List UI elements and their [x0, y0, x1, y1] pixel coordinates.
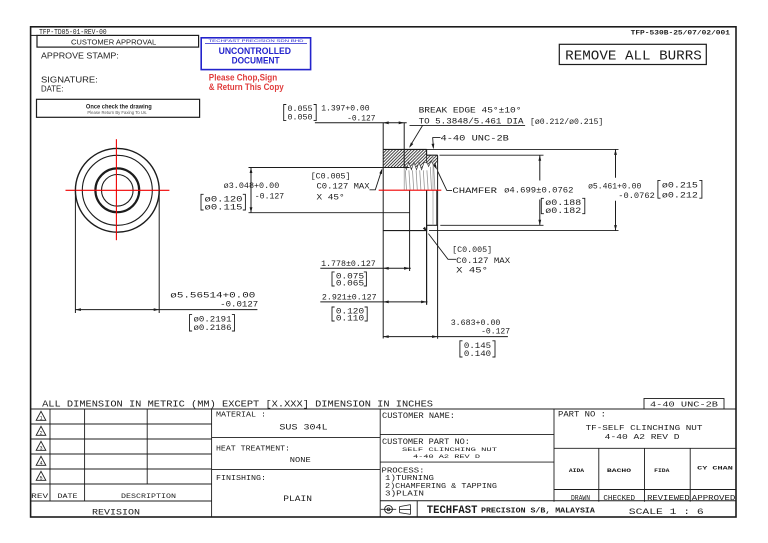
svg-text:0.065: 0.065 — [336, 280, 364, 289]
svg-text:SUS 304L: SUS 304L — [279, 424, 327, 433]
svg-text:CHAMFER: CHAMFER — [452, 187, 497, 196]
svg-text:0.050: 0.050 — [288, 114, 313, 123]
svg-text:PART NO :: PART NO : — [558, 410, 606, 419]
svg-text:DOCUMENT: DOCUMENT — [232, 56, 280, 66]
svg-text:ø0.2191: ø0.2191 — [194, 315, 232, 324]
svg-text:MATERIAL :: MATERIAL : — [216, 412, 266, 420]
svg-text:ALL DIMENSION IN METRIC (MM) E: ALL DIMENSION IN METRIC (MM) EXCEPT [X.X… — [42, 398, 433, 409]
svg-text:2)CHAMFERING & TAPPING: 2)CHAMFERING & TAPPING — [385, 483, 497, 491]
svg-text:X 45°: X 45° — [317, 193, 345, 202]
svg-text:TFP-530B-25/07/02/001: TFP-530B-25/07/02/001 — [631, 30, 730, 38]
svg-text:TECHFAST PRECISION SDN BHD: TECHFAST PRECISION SDN BHD — [209, 39, 305, 43]
svg-text:TF-SELF CLINCHING NUT: TF-SELF CLINCHING NUT — [586, 425, 703, 433]
svg-text:[C0.005]: [C0.005] — [311, 172, 351, 182]
svg-text:[ø0.212/ø0.215]: [ø0.212/ø0.215] — [530, 117, 603, 127]
svg-text:[C0.005]: [C0.005] — [452, 245, 492, 255]
svg-text:ø4.699±0.0762: ø4.699±0.0762 — [504, 187, 573, 196]
svg-text:2: 2 — [39, 431, 42, 437]
svg-text:HEAT TREATMENT:: HEAT TREATMENT: — [216, 445, 290, 453]
svg-text:PRECISION S/B, MALAYSIA: PRECISION S/B, MALAYSIA — [481, 507, 596, 515]
svg-text:2.921±0.127: 2.921±0.127 — [322, 294, 377, 303]
svg-text:0.110: 0.110 — [336, 315, 364, 324]
svg-text:-0.127: -0.127 — [481, 328, 510, 337]
svg-text:ø5.56514+0.00: ø5.56514+0.00 — [170, 292, 255, 301]
svg-text:Please Chop,Sign: Please Chop,Sign — [209, 72, 278, 82]
svg-text:DATE: DATE — [58, 493, 78, 500]
svg-text:CY CHAN: CY CHAN — [697, 465, 733, 472]
svg-text:BACHO: BACHO — [607, 467, 632, 474]
svg-text:FINISHING:: FINISHING: — [216, 475, 266, 483]
svg-text:-0.0762: -0.0762 — [618, 192, 655, 201]
svg-text:ø0.115: ø0.115 — [205, 203, 243, 212]
svg-text:APPROVED: APPROVED — [692, 495, 736, 503]
svg-text:4-40 UNC-2B: 4-40 UNC-2B — [650, 402, 719, 410]
svg-text:REMOVE ALL BURRS: REMOVE ALL BURRS — [565, 49, 702, 64]
svg-text:CUSTOMER APPROVAL: CUSTOMER APPROVAL — [71, 37, 156, 46]
svg-text:ø0.2186: ø0.2186 — [194, 324, 232, 333]
svg-text:REVISION: REVISION — [92, 509, 140, 518]
svg-text:3)PLAIN: 3)PLAIN — [385, 491, 424, 499]
svg-text:Once check the drawing: Once check the drawing — [86, 103, 152, 110]
svg-text:TO 5.3848/5.461 DIA: TO 5.3848/5.461 DIA — [419, 116, 524, 126]
svg-text:1)TURNING: 1)TURNING — [385, 475, 434, 483]
svg-text:-0.127: -0.127 — [347, 115, 375, 124]
svg-text:DESCRIPTION: DESCRIPTION — [121, 493, 176, 501]
svg-text:X 45°: X 45° — [456, 266, 488, 275]
svg-text:NONE: NONE — [290, 457, 311, 465]
svg-text:REV: REV — [31, 493, 48, 500]
svg-text:ø3.048+0.00: ø3.048+0.00 — [224, 182, 280, 191]
svg-text:BREAK EDGE 45°±10°: BREAK EDGE 45°±10° — [419, 107, 522, 116]
svg-text:TECHFAST: TECHFAST — [427, 505, 478, 517]
svg-text:1.397+0.00: 1.397+0.00 — [321, 105, 369, 114]
svg-text:ø5.461+0.00: ø5.461+0.00 — [588, 183, 641, 192]
svg-text:5: 5 — [39, 476, 42, 482]
svg-text:ø0.212: ø0.212 — [662, 191, 698, 200]
svg-text:-0.0127: -0.0127 — [220, 300, 258, 309]
svg-text:ø0.215: ø0.215 — [662, 182, 698, 191]
svg-text:FIDA: FIDA — [654, 467, 670, 474]
svg-text:C0.127 MAX: C0.127 MAX — [456, 257, 510, 266]
svg-text:UNCONTROLLED: UNCONTROLLED — [219, 46, 292, 56]
svg-text:DATE:: DATE: — [41, 84, 63, 94]
svg-text:ø0.182: ø0.182 — [545, 207, 581, 216]
svg-text:4-40 A2 REV D: 4-40 A2 REV D — [413, 454, 480, 460]
svg-text:APPROVE STAMP:: APPROVE STAMP: — [41, 51, 119, 61]
svg-text:0.140: 0.140 — [464, 350, 491, 359]
svg-text:3: 3 — [39, 446, 42, 452]
svg-text:4: 4 — [39, 461, 42, 467]
svg-text:SELF CLINCHING NUT: SELF CLINCHING NUT — [402, 447, 498, 453]
svg-text:C0.127 MAX: C0.127 MAX — [317, 183, 370, 192]
svg-text:PLAIN: PLAIN — [283, 495, 312, 504]
svg-text:DRAWN: DRAWN — [571, 495, 590, 503]
svg-text:REVIEWED: REVIEWED — [647, 495, 690, 503]
svg-text:4-40 UNC-2B: 4-40 UNC-2B — [441, 135, 509, 144]
svg-text:CUSTOMER PART NO:: CUSTOMER PART NO: — [382, 438, 470, 447]
svg-text:1: 1 — [39, 416, 42, 422]
svg-text:1.778±0.127: 1.778±0.127 — [321, 260, 376, 269]
svg-text:CUSTOMER NAME:: CUSTOMER NAME: — [382, 412, 455, 421]
svg-text:& Return This Copy: & Return This Copy — [209, 82, 285, 92]
svg-text:-0.127: -0.127 — [255, 193, 284, 202]
svg-text:SCALE 1 : 6: SCALE 1 : 6 — [629, 507, 704, 517]
svg-text:AIDA: AIDA — [569, 467, 585, 474]
svg-text:4-40 A2 REV D: 4-40 A2 REV D — [605, 434, 680, 442]
svg-text:CHECKED: CHECKED — [603, 495, 635, 503]
svg-text:Please Return By Faxing To Us.: Please Return By Faxing To Us. — [87, 110, 147, 116]
